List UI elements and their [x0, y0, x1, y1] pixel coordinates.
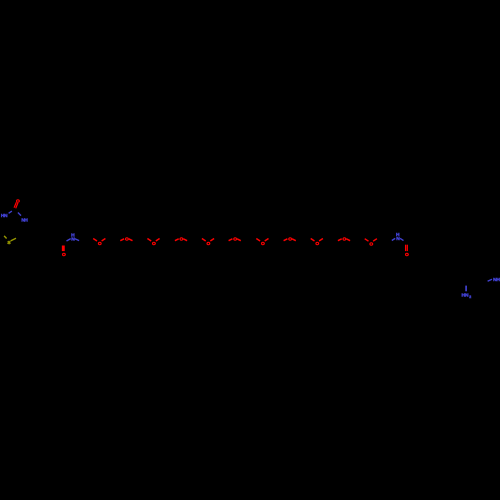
O3 bond halves to CH2 neighbours: [147, 239, 159, 242]
svg-text:O: O: [369, 241, 373, 247]
svg-text:H: H: [24, 217, 28, 223]
PEG ether O5 label: [207, 241, 211, 247]
O9 bond halves to CH2 neighbours: [311, 239, 323, 242]
svg-text:O: O: [233, 236, 237, 242]
svg-text:N: N: [71, 237, 75, 243]
right amide C=O double bond (red halves): [406, 245, 408, 251]
svg-text:O: O: [288, 236, 292, 242]
right amide O label: [405, 252, 409, 258]
biotin ureido carbonyl O label: [16, 198, 20, 204]
left amide bond N-CH2 (blue half): [75, 239, 80, 241]
O8 bond halves to CH2 neighbours: [284, 239, 296, 241]
O6 bond halves to CH2 neighbours: [229, 239, 241, 241]
O2 bond halves to CH2 neighbours: [120, 239, 132, 241]
bond S-C5 up-left (olive half): [4, 236, 7, 239]
PEG ether O1 label: [98, 241, 102, 247]
left amide N-H label: [71, 232, 75, 242]
left amide C=O double bond (red halves, merged): [62, 246, 65, 252]
svg-text:N: N: [396, 236, 400, 242]
biotin C2=O double bond (red halves): [14, 202, 18, 208]
PEG ether O3 label: [152, 241, 156, 247]
svg-text:H: H: [496, 277, 500, 283]
svg-text:O: O: [405, 252, 409, 258]
PEG ether O10 label: [343, 236, 347, 242]
biotin ring N3-H label (NH): [21, 217, 28, 223]
O5 bond halves to CH2 neighbours: [202, 239, 214, 242]
right amide bond N-CH2 (blue half): [392, 238, 395, 240]
terminal amine NH2 label: [461, 292, 471, 299]
left amide O label: [62, 252, 66, 258]
svg-text:O: O: [125, 236, 129, 242]
terminal C-NH2 bond (blue half, bold): [465, 286, 467, 292]
svg-text:O: O: [315, 241, 319, 247]
O1 bond halves to CH2 neighbours: [93, 239, 105, 242]
right amide N-H label: [396, 232, 400, 242]
PEG ether O8 label: [288, 236, 292, 242]
bond C2-N3 (blue half): [18, 213, 21, 216]
PEG ether O2 label: [125, 236, 129, 242]
svg-text:O: O: [98, 241, 102, 247]
bond S-C2a up-right (olive half): [11, 238, 16, 241]
PEG ether O9 label: [315, 241, 319, 247]
O4 bond halves to CH2 neighbours: [175, 239, 187, 241]
svg-text:2: 2: [469, 295, 471, 299]
bond CH2-NH at right edge (blue half): [488, 279, 492, 281]
O10 bond halves to CH2 neighbours: [338, 239, 350, 241]
biotin thiophane S label: [7, 240, 11, 246]
edge amine NH label (clipped at canvas edge): [493, 277, 500, 283]
O7 bond halves to CH2 neighbours: [256, 239, 268, 242]
bond N1-C2 (blue half): [9, 211, 12, 213]
svg-text:O: O: [261, 241, 265, 247]
left amide bond N-C(=O) (blue half): [67, 239, 71, 241]
PEG ether O6 label: [233, 236, 237, 242]
PEG ether O4 label: [180, 236, 184, 242]
PEG ether O7 label: [261, 241, 265, 247]
svg-text:O: O: [180, 236, 184, 242]
svg-text:O: O: [152, 241, 156, 247]
O11 bond halves to CH2 neighbours: [365, 239, 377, 242]
svg-text:O: O: [62, 252, 66, 258]
PEG ether O11 label: [369, 241, 373, 247]
svg-text:N: N: [4, 213, 8, 219]
svg-text:O: O: [343, 236, 347, 242]
svg-text:O: O: [207, 241, 211, 247]
right amide bond N-C(=O) (blue half): [400, 238, 404, 240]
biotin ring N1-H label (HN): [1, 213, 8, 219]
